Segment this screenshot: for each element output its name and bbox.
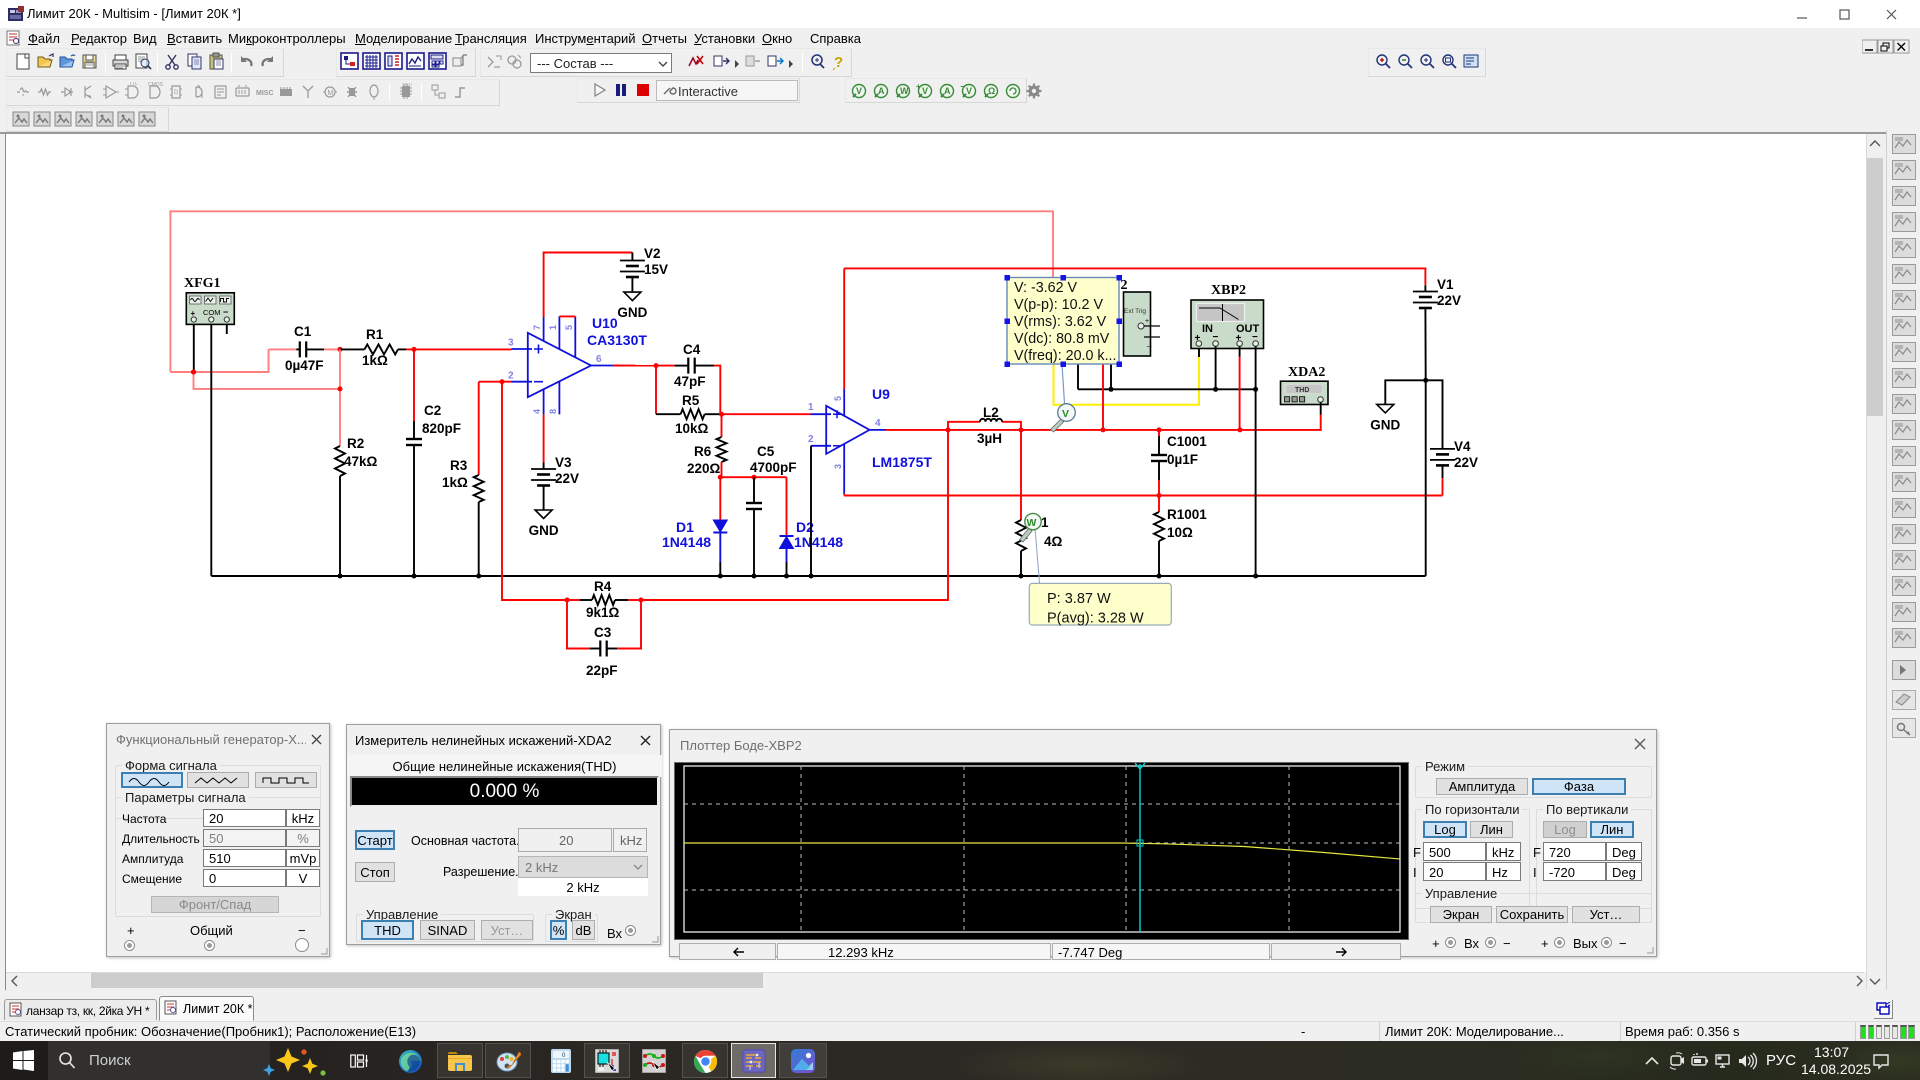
svg-text:C4: C4 [683,342,701,357]
svg-text:U9: U9 [872,386,890,402]
wire: selected net loop top-left [170,211,1053,372]
svg-text:8: 8 [548,409,558,414]
svg-text:CA3130T: CA3130T [587,332,647,348]
svg-text:MISC: MISC [256,90,274,97]
wire: lower supply rail [844,495,1442,497]
resistor R1 1k [340,327,414,368]
svg-text:V1: V1 [1437,277,1454,292]
svg-text:V: V [1062,408,1069,420]
resistor R3 1k [442,382,484,579]
wire: U9 pin5 to top rail [843,268,845,389]
wire: lower feedback branch to R2 [194,372,341,389]
distortion analyzer XDA2 instrument [1281,365,1329,405]
svg-text:0µ47F: 0µ47F [285,358,324,373]
wire: scope red to output rail [1102,364,1104,430]
svg-text:15V: 15V [644,262,668,277]
svg-text:22V: 22V [1454,455,1478,470]
svg-text:10Ω: 10Ω [1167,525,1193,540]
inductor L2 3uH [948,405,1024,446]
wire: U9 minus input to ground bus [809,446,814,579]
svg-text:XFG1: XFG1 [184,276,221,291]
node: XFG1 plus junction [191,370,196,375]
svg-text:W: W [1027,517,1037,529]
svg-text:R4: R4 [594,579,612,594]
svg-text:1N4148: 1N4148 [794,534,843,550]
wire: U9 pin3 to lower rail [843,494,845,496]
svg-text:220Ω: 220Ω [687,461,721,476]
svg-text:D1: D1 [676,519,694,535]
svg-text:3µH: 3µH [977,431,1002,446]
wire: XFG1 plus lead [193,322,195,373]
svg-text:4Ω: 4Ω [1044,534,1063,549]
ground GND at V2 [617,292,647,320]
resistor R4 9k1 feedback [502,382,644,620]
svg-text:22V: 22V [1437,293,1461,308]
svg-text:A: A [878,86,885,96]
svg-text:MCU: MCU [403,82,412,87]
svg-text:THD: THD [1295,387,1309,394]
svg-text:5: 5 [564,325,574,330]
wire: diode clamp net [720,475,786,480]
svg-text:V(freq): 20.0 k...: V(freq): 20.0 k... [1014,348,1117,364]
measurement box V values (selected) [1005,275,1123,367]
menu bar [0,28,1920,48]
svg-text:10kΩ: 10kΩ [675,421,709,436]
svg-text:GND: GND [617,305,647,320]
node: XFG1 plus junction dot [191,370,196,375]
svg-text:1: 1 [1041,515,1049,530]
svg-text:820pF: 820pF [422,421,461,436]
svg-text:V: V [922,86,928,96]
wire: scope black jumpers to XBP2 [1078,364,1258,392]
oscilloscope XSC2 (behind measurement box) [1121,278,1161,356]
resistor R2 47k [335,436,378,579]
svg-text:Ω: Ω [988,86,995,96]
svg-text:1: 1 [808,402,814,413]
svg-text:3: 3 [833,464,843,469]
wire: XBP2 OUT+ [1239,347,1241,430]
svg-text:M: M [328,90,334,97]
node: U9 output junction [886,427,951,432]
node: C1/R1 junction [338,347,343,352]
svg-text:COM: COM [203,308,221,317]
resistor R1001 10ohm [1154,496,1207,579]
resistor R6 220 [687,414,727,480]
svg-text:P(avg): 3.28 W: P(avg): 3.28 W [1047,611,1144,627]
svg-text:4700pF: 4700pF [750,460,797,475]
bode plotter XBP2 instrument [1191,283,1264,349]
svg-text:_: _ [1146,338,1152,347]
battery V3 22V [531,414,579,510]
svg-text:47kΩ: 47kΩ [344,454,378,469]
wire: XFG1 plus to C1 [170,349,268,372]
svg-text:V(p-p): 10.2 V: V(p-p): 10.2 V [1014,297,1103,313]
svg-text:IN: IN [1202,323,1213,335]
wire: XFG1 COM to ground bus [210,322,212,577]
capacitor C4 47pF [656,342,720,414]
svg-text:C1001: C1001 [1167,434,1207,449]
svg-text:R1001: R1001 [1167,507,1207,522]
ground bus wire [211,575,1425,577]
ground GND at V3 [529,510,559,538]
measurement box P values [1029,583,1171,626]
svg-text:V2: V2 [644,246,661,261]
svg-text:GND: GND [529,523,559,538]
svg-text:TTL: TTL [129,82,138,87]
svg-text:C3: C3 [594,625,612,640]
svg-text:+: + [1145,318,1149,325]
node: R1/C2 junction [412,347,417,352]
svg-text:7: 7 [532,325,542,330]
resistor R5 10k [656,366,724,436]
svg-text:XBP2: XBP2 [1211,283,1246,298]
wire: R1 to U10 plus input [414,348,512,350]
svg-text:6: 6 [596,354,602,365]
svg-text:47pF: 47pF [674,374,706,389]
op-amp U9 LM1875T [808,386,932,494]
wire: V1 negative to ground bus [1425,380,1427,576]
svg-text:0µ1F: 0µ1F [1167,452,1198,467]
battery V4 22V [1426,380,1478,495]
svg-text:XDA2: XDA2 [1288,365,1325,380]
svg-text:−: − [223,307,228,317]
svg-text:C1: C1 [294,324,312,339]
wire: U10 pin7 to V2 [544,253,633,318]
svg-text:W: W [900,86,909,96]
battery V2 15V [620,246,668,292]
ground GND right [1370,380,1425,432]
wire: U10 output [613,363,659,368]
probe W1 power probe [1020,513,1042,583]
capacitor C1001 0u1F [1151,430,1207,498]
wire: XBP2 IN- [1215,347,1217,390]
capacitor C2 820pF [406,349,461,578]
svg-text:A: A [944,86,951,96]
svg-text:4: 4 [875,418,881,429]
capacitor C5 4700pF [746,444,797,579]
svg-text:CMOS: CMOS [148,82,164,88]
diode D2 1N4148 [780,477,844,578]
svg-text:3: 3 [508,338,514,349]
svg-text:22pF: 22pF [586,663,618,678]
svg-text:9k1Ω: 9k1Ω [586,605,620,620]
svg-text:1kΩ: 1kΩ [442,475,468,490]
op-amp U10 CA3130T [508,315,647,414]
svg-text:GND: GND [1370,417,1400,432]
svg-text:5: 5 [833,396,843,401]
svg-text:1kΩ: 1kΩ [362,353,388,368]
svg-text:D: D [174,90,179,96]
wire: XBP2 OUT- to ground bus [1253,347,1258,579]
svg-text:R6: R6 [694,444,712,459]
svg-text:+: + [916,82,921,91]
title bar [0,0,1920,28]
svg-text:4: 4 [532,409,542,414]
wire: output rail [1021,427,1322,432]
svg-text:Ext Trig: Ext Trig [1124,308,1146,315]
wire: XFG1 minus stub [226,322,228,335]
function generator XFG1 [184,276,234,324]
svg-text:P: 3.87 W: P: 3.87 W [1047,591,1111,607]
svg-text:R2: R2 [347,436,364,451]
svg-text:U10: U10 [592,315,618,331]
svg-text:V4: V4 [1454,439,1471,454]
svg-text:L2: L2 [983,405,999,420]
wire: XDA2 input [1320,403,1322,431]
capacitor C3 22pF [567,600,641,678]
svg-text:V: V [966,86,972,96]
wire: probe V blue lead [1062,364,1065,404]
svg-text:1N4148: 1N4148 [662,534,711,550]
wire: U10 minus input net [479,379,512,384]
probe V1 voltage probe [1051,404,1076,432]
wire: feedback to U9 output [641,430,948,600]
svg-text:1: 1 [548,325,558,330]
svg-text:LM1875T: LM1875T [872,454,932,470]
svg-text:2: 2 [808,434,814,445]
svg-text:C5: C5 [757,444,775,459]
svg-text:2: 2 [508,371,514,382]
wire: scope probe A yellow to XBP2 IN+ [1054,347,1200,405]
svg-text:R5: R5 [682,393,700,408]
svg-text:V: -3.62 V: V: -3.62 V [1014,280,1078,296]
svg-text:V(rms): 3.62 V: V(rms): 3.62 V [1014,314,1107,330]
wire: C1 bottom branch to R2 [338,349,343,446]
svg-text:V: V [856,86,862,96]
resistor load 4ohm with W1 probe [1016,430,1063,579]
svg-text:?: ? [834,54,843,71]
capacitor C1 0u47F [269,324,341,373]
battery V1 22V [1413,277,1461,383]
svg-text:V3: V3 [555,455,572,470]
wire: R5 to U9 plus input [722,413,811,415]
svg-text:V(dc): 80.8 mV: V(dc): 80.8 mV [1014,331,1110,347]
svg-text:R3: R3 [450,458,468,473]
diode D1 1N4148 [662,477,727,578]
svg-text:22V: 22V [555,471,579,486]
svg-text:R1: R1 [366,327,384,342]
wire: top supply rail [844,268,1425,285]
svg-text:−: − [960,82,965,91]
svg-text:C2: C2 [424,403,441,418]
